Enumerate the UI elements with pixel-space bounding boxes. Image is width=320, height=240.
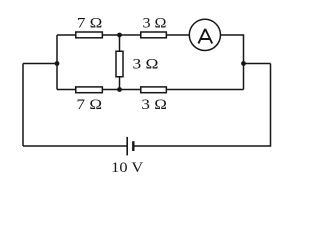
resistor R2 3 ohm (top right)	[141, 32, 167, 38]
resistor R3 3 ohm (middle vertical)	[116, 51, 123, 77]
ammeter U1 circle	[189, 19, 220, 50]
wire middle branch upper: node C to resistor R3	[119, 35, 121, 51]
node C junction dot	[117, 33, 122, 38]
battery V1 long plate (positive)	[126, 137, 128, 156]
label A inside ammeter U1	[198, 29, 212, 44]
wire left stub from outer loop to node A	[23, 63, 57, 65]
wire R5 to inner right vertical	[166, 89, 243, 91]
wire bottom left to battery	[23, 145, 127, 147]
wire inner right vertical below node B	[243, 64, 245, 90]
wire outer left vertical	[22, 64, 24, 147]
svg-text:3 Ω: 3 Ω	[133, 56, 159, 73]
wire R1 to node C	[102, 34, 140, 36]
svg-text:3 Ω: 3 Ω	[141, 96, 167, 113]
resistor R5 3 ohm (bottom right)	[141, 87, 167, 93]
wire top branch: node A corner to resistor R1	[57, 34, 76, 36]
wire R2 to ammeter	[166, 34, 189, 36]
node D junction dot	[117, 87, 122, 92]
wire bottom branch: left corner to resistor R4	[57, 89, 76, 91]
resistor R4 7 ohm (bottom left)	[76, 87, 103, 93]
wire inner left vertical through node A	[56, 35, 58, 90]
svg-text:7 Ω: 7 Ω	[77, 15, 103, 32]
svg-text:7 Ω: 7 Ω	[77, 96, 103, 113]
svg-text:10 V: 10 V	[111, 159, 143, 176]
wire ammeter to right corner down to node B	[221, 35, 244, 64]
wire R4 to node D	[102, 89, 140, 91]
wire middle branch lower: R3 to node D	[119, 77, 121, 90]
svg-text:3 Ω: 3 Ω	[143, 15, 167, 32]
resistor R1 7 ohm (top left)	[76, 32, 103, 38]
wire right stub from node B to outer loop	[244, 63, 271, 65]
node B junction dot	[241, 61, 246, 66]
battery V1 short plate (negative)	[132, 141, 134, 151]
node A junction dot	[55, 61, 60, 66]
wire bottom right from battery	[133, 64, 270, 147]
